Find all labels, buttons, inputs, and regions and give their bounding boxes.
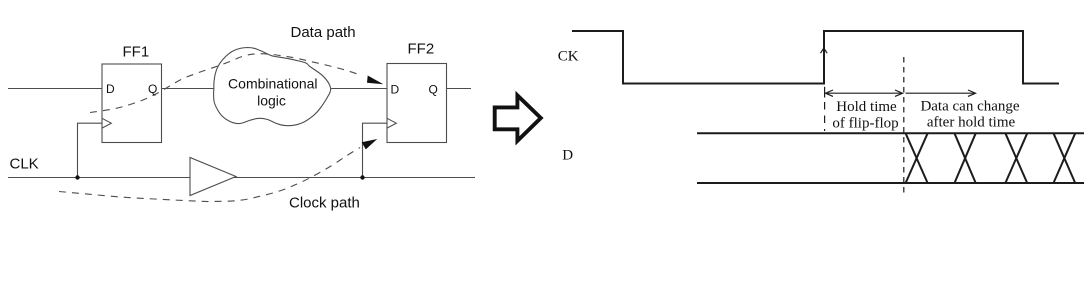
svg-text:FF1: FF1 bbox=[123, 44, 150, 61]
svg-text:Hold time: Hold time bbox=[836, 99, 897, 115]
svg-text:Q: Q bbox=[429, 83, 438, 97]
svg-text:D: D bbox=[391, 83, 400, 97]
svg-text:CK: CK bbox=[558, 49, 579, 65]
svg-text:Clock path: Clock path bbox=[289, 195, 360, 212]
svg-text:of flip-flop: of flip-flop bbox=[832, 115, 898, 131]
svg-text:CLK: CLK bbox=[10, 156, 39, 173]
svg-text:logic: logic bbox=[257, 93, 286, 109]
svg-text:Q: Q bbox=[148, 82, 157, 96]
svg-text:FF2: FF2 bbox=[408, 41, 435, 58]
svg-text:Data path: Data path bbox=[291, 24, 356, 41]
svg-text:D: D bbox=[562, 148, 573, 164]
svg-text:Combinational: Combinational bbox=[228, 76, 318, 92]
svg-text:after hold time: after hold time bbox=[927, 115, 1016, 131]
svg-text:Data can change: Data can change bbox=[920, 99, 1019, 115]
svg-text:D: D bbox=[106, 82, 115, 96]
